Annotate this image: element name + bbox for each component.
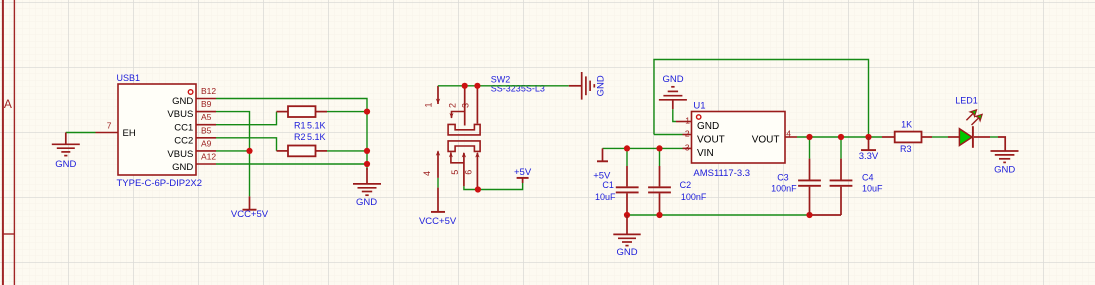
svg-text:VOUT: VOUT: [752, 135, 780, 146]
pin 2: [464, 86, 466, 126]
svg-text:1: 1: [685, 116, 690, 126]
svg-text:C4: C4: [862, 173, 874, 183]
moving contact top: [452, 112, 465, 119]
svg-text:R1: R1: [294, 120, 306, 130]
junction R1-column: [364, 109, 370, 115]
wire bottom rail: [627, 214, 810, 216]
pin 6: [476, 153, 478, 190]
capacitor C2 100nF: [648, 148, 707, 215]
svg-text:C1: C1: [602, 180, 614, 190]
slider knob bottom: [448, 141, 480, 152]
wire A5 to R1: [216, 112, 277, 125]
frame border left inner line: [13, 0, 15, 285]
svg-text:USB1: USB1: [117, 73, 141, 83]
ground GND (right of LED1): [991, 137, 1019, 176]
power port +5V (right of SW2): [514, 167, 532, 183]
svg-text:6: 6: [463, 170, 473, 175]
svg-text:+5V: +5V: [514, 167, 532, 178]
svg-text:VCC+5V: VCC+5V: [231, 209, 269, 220]
switch SW2 SS-3235S-L3: [422, 75, 545, 190]
frame row divider tick: [3, 233, 15, 235]
power port 3.3V: [859, 137, 879, 162]
svg-text:5: 5: [450, 170, 460, 175]
resistor R1 5.1K: [277, 106, 328, 130]
svg-text:GND: GND: [596, 75, 607, 96]
svg-text:B9: B9: [201, 99, 212, 109]
resistor R2 5.1K: [277, 132, 328, 156]
wire U1 pin1 to GND above: [673, 109, 676, 121]
junction A12-column: [364, 161, 370, 167]
ground GND (right of SW2, rotated): [569, 72, 607, 100]
ground GND (left of USB1): [52, 133, 80, 156]
svg-text:GND: GND: [994, 165, 1015, 176]
svg-text:5.1K: 5.1K: [307, 132, 326, 142]
svg-text:A5: A5: [201, 112, 212, 122]
wire bottom rail red segment C3-C4: [810, 214, 842, 216]
svg-text:C2: C2: [680, 180, 692, 190]
wire top rail U1: [654, 60, 869, 138]
pin 1: [437, 86, 439, 104]
svg-text:GND: GND: [55, 159, 76, 170]
wire B12 to right column: [216, 99, 367, 171]
ground GND (USB right column): [353, 168, 381, 208]
svg-text:4: 4: [422, 171, 432, 176]
resistor R3 1K: [882, 120, 932, 154]
junction pin6-bottom: [475, 186, 481, 192]
svg-text:10uF: 10uF: [862, 184, 883, 194]
svg-text:GND: GND: [697, 121, 719, 132]
svg-text:3: 3: [685, 142, 690, 152]
svg-text:C3: C3: [777, 173, 789, 183]
svg-text:GND: GND: [662, 74, 683, 85]
svg-text:TYPE-C-6P-DIP2X2: TYPE-C-6P-DIP2X2: [117, 178, 203, 189]
junction C3-bottom: [806, 212, 812, 218]
pin 4: [437, 151, 439, 178]
junction R2-column: [364, 148, 370, 154]
junction 3.3V node: [865, 134, 871, 140]
wire B5 to R2: [216, 138, 277, 151]
junction pin3-top: [474, 83, 480, 89]
wire SW2 pin4 to VCC: [437, 178, 439, 188]
moving contact bottom: [451, 153, 464, 163]
svg-text:100nF: 100nF: [771, 184, 797, 194]
junction pin2-top: [462, 83, 468, 89]
wire SW2 top rail: [438, 85, 569, 87]
wire R1 to column: [327, 111, 367, 113]
svg-text:VCC+5V: VCC+5V: [419, 216, 457, 227]
wire SW2 bottom rail to +5V: [464, 183, 523, 190]
svg-text:VBUS: VBUS: [167, 149, 193, 160]
svg-text:CC2: CC2: [174, 136, 193, 147]
svg-text:A: A: [4, 97, 12, 111]
svg-text:AMS1117-3.3: AMS1117-3.3: [693, 168, 750, 179]
frame border left outer line: [2, 0, 4, 285]
ground GND (below C1): [613, 215, 640, 258]
wire B9 down to VCC: [216, 112, 250, 197]
svg-text:2: 2: [448, 103, 458, 108]
junction C1-VIN: [624, 145, 630, 151]
svg-text:R2: R2: [294, 132, 306, 142]
wire R3 to LED: [932, 136, 948, 138]
svg-text:LED1: LED1: [955, 96, 978, 106]
capacitor C3 100nF: [771, 137, 821, 215]
wire A12 to column: [216, 163, 367, 165]
pin 3: [476, 86, 478, 124]
wire LED to GND: [990, 136, 998, 138]
svg-text:GND: GND: [172, 162, 193, 173]
svg-text:B5: B5: [201, 125, 212, 135]
pin 5: [463, 153, 465, 186]
svg-text:B12: B12: [201, 86, 216, 96]
svg-text:VOUT: VOUT: [697, 135, 725, 146]
junction C1-bottom: [624, 212, 630, 218]
capacitor C4 10uF: [830, 137, 883, 215]
svg-text:GND: GND: [356, 197, 377, 208]
ground GND (above U1, flipped): [659, 74, 687, 109]
svg-text:GND: GND: [616, 247, 637, 258]
junction C2-VIN: [656, 145, 662, 151]
junction C3-VOUT: [806, 134, 812, 140]
svg-text:EH: EH: [123, 128, 136, 139]
power port +5V (left of U1): [593, 148, 611, 181]
slider knob top: [448, 124, 480, 134]
svg-text:CC1: CC1: [174, 122, 193, 133]
power port VCC+5V (below SW2): [419, 188, 457, 227]
svg-text:1K: 1K: [901, 120, 912, 130]
svg-text:3: 3: [460, 103, 470, 108]
power port VCC+5V (below USB1): [231, 196, 269, 220]
svg-text:GND: GND: [172, 96, 193, 107]
junction C4-VOUT: [838, 134, 844, 140]
wire VIN rail: [603, 147, 683, 149]
wire EH to GND: [66, 132, 96, 134]
junction C2-bottom: [656, 212, 662, 218]
wire A9 to VCC junction: [216, 150, 250, 152]
junction B9/A9 VCC: [246, 148, 252, 154]
svg-text:5.1K: 5.1K: [307, 120, 326, 130]
svg-text:A12: A12: [201, 152, 216, 162]
svg-text:VIN: VIN: [697, 148, 714, 159]
svg-text:2: 2: [685, 129, 690, 139]
svg-text:U1: U1: [693, 101, 705, 112]
svg-text:1: 1: [424, 102, 434, 107]
wire VOUT rail: [797, 136, 882, 138]
svg-text:100nF: 100nF: [681, 192, 707, 202]
svg-text:VBUS: VBUS: [167, 109, 193, 120]
svg-text:3.3V: 3.3V: [859, 151, 879, 162]
regulator U1 AMS1117-3.3: [676, 101, 797, 180]
wire R2 to column: [327, 150, 367, 152]
svg-text:R3: R3: [900, 144, 912, 154]
connector USB1 TYPE-C-6P-DIP2X2: [96, 73, 217, 189]
svg-text:4: 4: [786, 129, 791, 139]
capacitor C1 10uF: [595, 148, 639, 215]
LED LED1: [948, 96, 990, 148]
wire pin2 elbow: [654, 134, 683, 136]
svg-text:7: 7: [107, 120, 112, 130]
svg-text:A9: A9: [201, 138, 212, 148]
svg-text:10uF: 10uF: [595, 192, 616, 202]
